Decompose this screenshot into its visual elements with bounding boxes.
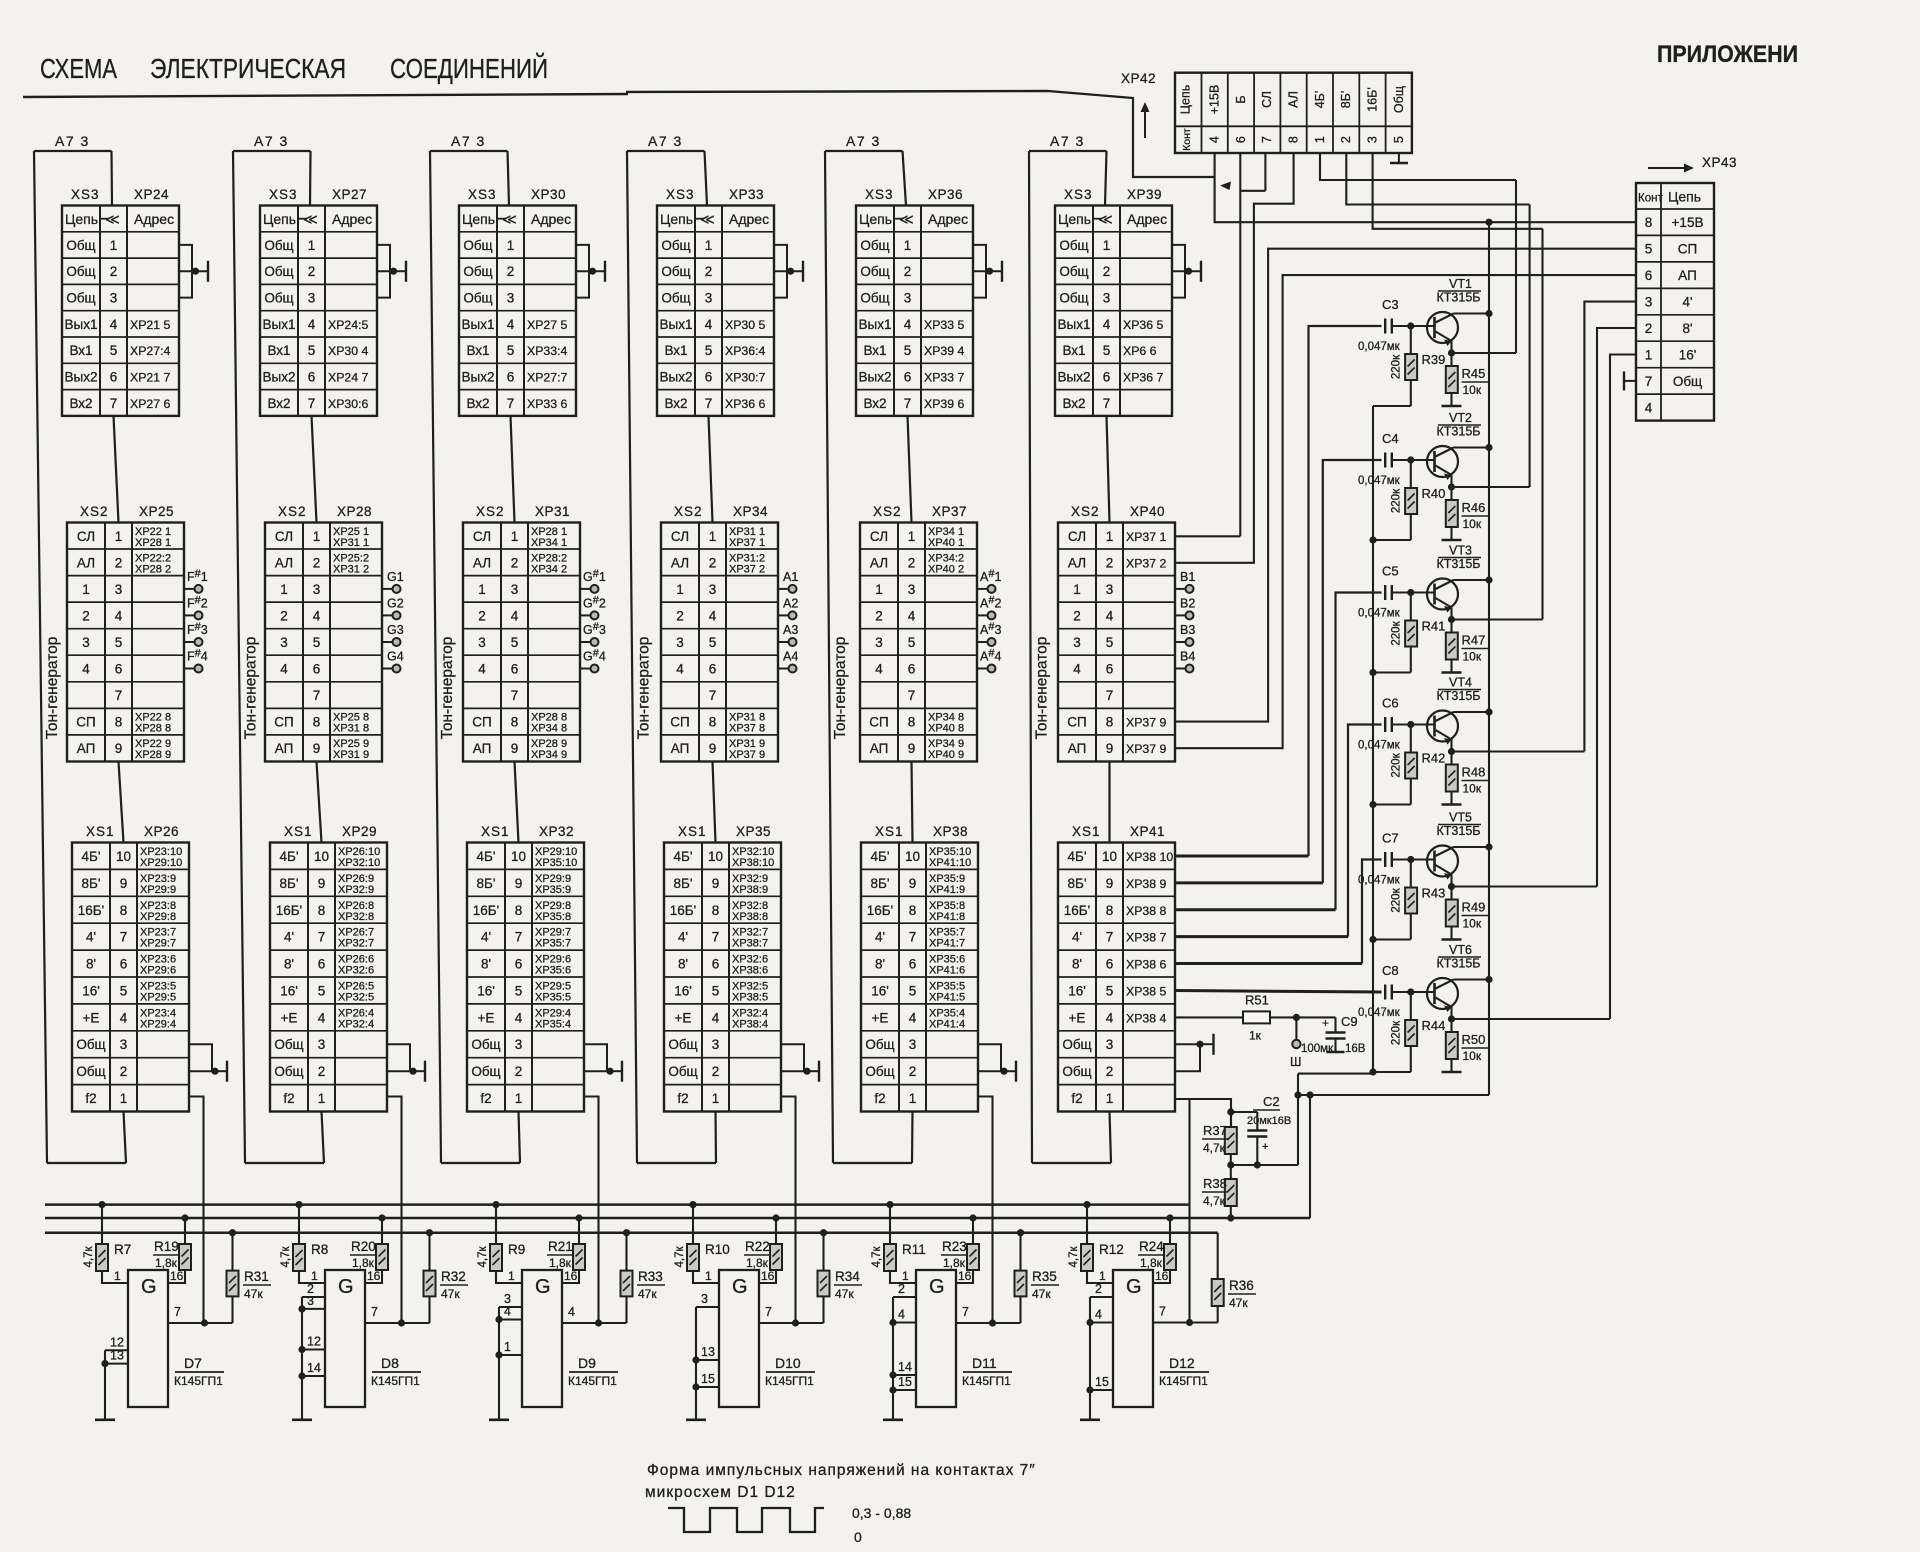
node G4 output circle column 2: [382, 650, 404, 673]
svg-text:2: 2: [478, 608, 486, 623]
svg-text:9: 9: [120, 876, 128, 891]
IC D8 К145ГП1 box: [325, 1270, 365, 1407]
svg-text:ХР31 8: ХР31 8: [333, 723, 369, 735]
wire XS3-XS2 link column 4: [709, 416, 713, 523]
svg-text:G1: G1: [387, 570, 404, 584]
svg-text:R20: R20: [351, 1239, 376, 1254]
svg-text:Общ: Общ: [76, 1064, 105, 1079]
svg-text:6: 6: [1106, 662, 1114, 677]
label Тон-генератор column 6: [1034, 637, 1051, 740]
svg-text:4: 4: [1106, 608, 1114, 623]
wire +15V collector bus: [1297, 222, 1490, 1095]
svg-text:Общ: Общ: [860, 264, 889, 279]
ground terminal at XP43 pin 7: [1624, 371, 1636, 390]
svg-text:VT4: VT4: [1449, 676, 1472, 690]
svg-text:4: 4: [705, 317, 713, 332]
svg-text:АЛ: АЛ: [1068, 555, 1086, 570]
svg-text:2: 2: [511, 555, 519, 570]
svg-text:7: 7: [709, 688, 717, 703]
IC D11 К145ГП1 box: [916, 1270, 956, 1407]
svg-text:АЛ: АЛ: [473, 555, 491, 570]
svg-text:Вых1: Вых1: [462, 317, 495, 332]
ground terminal at XP42 pin 5: [1390, 153, 1408, 163]
svg-text:А7 3: А7 3: [451, 133, 486, 149]
svg-text:Вх2: Вх2: [69, 396, 92, 411]
connector table XS1/ХР26 column 1: [72, 824, 189, 1112]
wire D11 grounded pins: [889, 1282, 916, 1420]
wire XS3-XS2 link column 2: [312, 416, 317, 523]
svg-text:ХР37 9: ХР37 9: [1126, 716, 1166, 730]
node А#4 output circle column 5: [977, 648, 1001, 673]
node VT4 emitter junction: [1448, 740, 1585, 756]
svg-text:1: 1: [875, 582, 883, 597]
svg-text:+15В: +15В: [1208, 85, 1222, 115]
svg-text:ХР41:7: ХР41:7: [929, 938, 965, 950]
svg-text:Конт: Конт: [1181, 128, 1193, 151]
wire AP XS2 column6 pin9 to XP43 pin6: [1175, 275, 1636, 748]
svg-text:9: 9: [511, 741, 519, 756]
svg-text:Вых2: Вых2: [1058, 369, 1091, 384]
svg-text:10к: 10к: [1463, 782, 1482, 796]
IC D10 К145ГП1 box: [719, 1270, 759, 1407]
svg-text:1: 1: [115, 529, 123, 544]
resistor R45 10к: [1446, 353, 1488, 406]
svg-text:В3: В3: [1180, 623, 1195, 637]
svg-text:2: 2: [82, 608, 90, 623]
wire XP42 pin2 8B' to VT2 emitter: [1346, 153, 1529, 205]
svg-text:G: G: [1126, 1276, 1142, 1298]
svg-text:4Б': 4Б': [280, 849, 299, 864]
svg-text:Вх2: Вх2: [466, 396, 489, 411]
svg-text:В1: В1: [1180, 570, 1195, 584]
svg-text:ХР38:7: ХР38:7: [732, 938, 768, 950]
svg-text:ХР37: ХР37: [932, 504, 967, 519]
svg-text:16': 16': [477, 984, 495, 999]
svg-text:ХР36 6: ХР36 6: [725, 397, 765, 411]
capacitor C3 0,047мк: [1358, 297, 1411, 353]
connector table XS3/ХР30 column 3: [459, 187, 576, 416]
svg-text:ХР37 8: ХР37 8: [729, 723, 765, 735]
svg-text:7: 7: [511, 688, 519, 703]
svg-text:4: 4: [568, 1305, 575, 1319]
svg-text:R44: R44: [1422, 1018, 1446, 1033]
ground at VT1 emitter resistor: [1442, 405, 1462, 408]
label XP42 pin 3 net 16Б': [1366, 87, 1380, 143]
svg-text:≪: ≪: [502, 211, 517, 227]
svg-text:3: 3: [308, 291, 316, 306]
svg-text:ХР38:8: ХР38:8: [732, 911, 768, 923]
svg-text:ХР32:10: ХР32:10: [338, 857, 380, 869]
wire VT6 emitter to XP43 pin1: [1610, 355, 1636, 1020]
svg-text:XS2: XS2: [1071, 504, 1100, 519]
svg-text:8': 8': [875, 957, 885, 972]
node А#3 output circle column 5: [977, 621, 1001, 646]
svg-text:4: 4: [478, 662, 486, 677]
svg-text:Вых1: Вых1: [263, 317, 296, 332]
svg-text:1: 1: [1645, 348, 1653, 363]
module A7.3 column 5 outline: [825, 151, 912, 1163]
svg-text:4Б': 4Б': [871, 849, 890, 864]
wire D10 pin 7 net: [759, 1305, 824, 1327]
svg-text:СЛ: СЛ: [1260, 91, 1274, 108]
svg-text:6: 6: [1103, 369, 1111, 384]
svg-text:R51: R51: [1245, 992, 1269, 1007]
svg-text:16': 16': [1068, 984, 1086, 999]
ground at D12: [1080, 1419, 1100, 1422]
svg-text:Вых2: Вых2: [859, 369, 892, 384]
wire VT2 collector to +15V bus: [1454, 444, 1493, 451]
svg-text:Общ: Общ: [471, 1037, 500, 1052]
svg-text:4: 4: [110, 317, 118, 332]
svg-text:ХР37 2: ХР37 2: [1126, 556, 1166, 570]
svg-text:ХР33 7: ХР33 7: [924, 370, 964, 384]
svg-text:6: 6: [120, 957, 128, 972]
title text СХЕМА ЭЛЕКТРИЧЕСКАЯ СОЕДИНЕНИЙ: [40, 53, 548, 84]
svg-text:АП: АП: [77, 741, 96, 756]
svg-text:8Б': 8Б': [280, 876, 299, 891]
svg-text:Общ: Общ: [274, 1037, 303, 1052]
connector table XS1/ХР29 column 2: [270, 824, 387, 1112]
svg-text:Цепь: Цепь: [462, 211, 495, 227]
svg-text:ХР39 4: ХР39 4: [924, 344, 964, 358]
svg-text:ХР28 9: ХР28 9: [135, 749, 171, 761]
svg-text:ХР28: ХР28: [337, 504, 372, 519]
svg-text:ХР40: ХР40: [1130, 504, 1165, 519]
svg-text:G: G: [338, 1276, 354, 1298]
svg-text:Ш: Ш: [1290, 1055, 1301, 1069]
svg-text:1: 1: [1106, 1091, 1114, 1106]
svg-text:10: 10: [708, 849, 723, 864]
note text line 2: [645, 1484, 796, 1501]
svg-text:К145ГП1: К145ГП1: [371, 1374, 420, 1388]
svg-text:3: 3: [1645, 295, 1653, 310]
svg-text:XS3: XS3: [666, 187, 695, 202]
svg-text:1: 1: [904, 238, 912, 253]
title heading ПРИЛОЖЕНИ: [1657, 41, 1798, 68]
svg-text:1,8к: 1,8к: [1140, 1256, 1163, 1270]
svg-text:C8: C8: [1382, 963, 1399, 978]
resistor R10 4,7к: [674, 1201, 730, 1283]
svg-text:8Б': 8Б': [82, 876, 101, 891]
svg-text:1,8к: 1,8к: [549, 1256, 572, 1270]
svg-text:Вх1: Вх1: [466, 343, 489, 358]
transistor VT6 КТ315Б: [1411, 943, 1481, 1012]
svg-text:1,8к: 1,8к: [155, 1256, 178, 1270]
svg-text:47к: 47к: [1229, 1296, 1248, 1310]
svg-text:VT6: VT6: [1449, 943, 1472, 957]
svg-text:АЛ: АЛ: [77, 555, 95, 570]
svg-text:4Б': 4Б': [1068, 849, 1087, 864]
svg-text:12: 12: [307, 1335, 321, 1349]
svg-text:1: 1: [676, 582, 684, 597]
svg-text:КТ315Б: КТ315Б: [1437, 824, 1481, 838]
svg-text:Общ: Общ: [66, 291, 95, 306]
wire D11 pin 7 net: [956, 1305, 1021, 1327]
svg-text:4: 4: [1208, 136, 1222, 143]
resistor R50 10к: [1446, 1019, 1488, 1072]
svg-text:7: 7: [1106, 688, 1114, 703]
svg-text:VT1: VT1: [1449, 277, 1472, 291]
svg-text:4': 4': [284, 930, 294, 945]
label D12 К145ГП1: [1159, 1355, 1209, 1388]
wire 220k bias bus: [1294, 406, 1373, 1165]
svg-text:8Б': 8Б': [1068, 876, 1087, 891]
label A7 3 column 3: [451, 133, 486, 149]
node А2 output circle column 4: [778, 596, 798, 619]
svg-text:Общ: Общ: [66, 264, 95, 279]
svg-text:7: 7: [308, 396, 316, 411]
svg-text:0,047мк: 0,047мк: [1358, 341, 1401, 353]
svg-text:ХР37 1: ХР37 1: [1126, 530, 1166, 544]
wire XP42 pin1 4B' to VT1 emitter: [1320, 153, 1516, 180]
svg-text:4: 4: [898, 1308, 905, 1322]
svg-text:8: 8: [318, 903, 326, 918]
svg-text:СП: СП: [76, 715, 95, 730]
resistor R8 4,7к: [280, 1201, 328, 1283]
svg-text:7: 7: [507, 396, 515, 411]
svg-text:ХР29: ХР29: [342, 824, 377, 839]
svg-text:6: 6: [507, 369, 515, 384]
svg-text:VT3: VT3: [1449, 544, 1472, 558]
svg-text:АЛ: АЛ: [870, 555, 888, 570]
IC D7 К145ГП1 box: [128, 1270, 168, 1407]
svg-text:R31: R31: [244, 1269, 269, 1284]
wire +15V XP42 pin4 to XP43 pin8: [1215, 153, 1636, 226]
wire D7 pin 7 net: [168, 1305, 233, 1327]
svg-text:Общ: Общ: [76, 1037, 105, 1052]
svg-text:16: 16: [367, 1269, 381, 1283]
svg-text:2: 2: [909, 1064, 917, 1079]
label 0: [854, 1529, 862, 1545]
svg-text:В2: В2: [1180, 596, 1195, 610]
resistor R51 1к: [1243, 992, 1270, 1042]
svg-text:ХР30 4: ХР30 4: [328, 344, 368, 358]
svg-text:XS2: XS2: [674, 504, 703, 519]
ground chassis symbol at XS1 column 5: [978, 1044, 1016, 1082]
resistor R42 220к: [1369, 725, 1445, 809]
svg-text:8': 8': [481, 957, 491, 972]
svg-text:Общ: Общ: [865, 1064, 894, 1079]
svg-text:СЛ: СЛ: [77, 529, 95, 544]
svg-text:2: 2: [115, 555, 123, 570]
label D7 К145ГП1: [174, 1355, 224, 1388]
svg-text:Общ: Общ: [661, 264, 690, 279]
svg-text:4': 4': [86, 930, 96, 945]
svg-text:4,7к: 4,7к: [280, 1246, 292, 1268]
svg-text:5: 5: [909, 984, 917, 999]
svg-text:4Б': 4Б': [82, 849, 101, 864]
wire +E XS1 column6 pin4 to R51: [1175, 1016, 1243, 1018]
svg-text:R37: R37: [1203, 1123, 1227, 1138]
svg-text:7: 7: [1159, 1305, 1166, 1319]
ground chassis symbol at XS1 column 2: [387, 1044, 425, 1082]
svg-text:Вых1: Вых1: [859, 317, 892, 332]
svg-text:≪: ≪: [105, 211, 120, 227]
svg-text:ХР25: ХР25: [139, 504, 174, 519]
resistor R46 10к: [1446, 487, 1488, 540]
svg-text:10к: 10к: [1463, 1049, 1482, 1063]
svg-text:1: 1: [114, 1269, 121, 1283]
connector table XS1/ХР38 column 5: [861, 824, 978, 1112]
svg-text:4: 4: [280, 662, 288, 677]
svg-text:R50: R50: [1462, 1032, 1486, 1047]
svg-text:10: 10: [1102, 849, 1117, 864]
svg-text:АП: АП: [275, 741, 294, 756]
svg-text:ХР37 9: ХР37 9: [1126, 742, 1166, 756]
label XP42 pin 5 net Общ: [1392, 86, 1406, 143]
svg-text:7: 7: [1106, 930, 1114, 945]
node VT6 base junction: [1407, 988, 1414, 995]
resistor R19 1,8к: [153, 1214, 191, 1283]
ground at D11: [883, 1419, 903, 1422]
svg-text:G: G: [929, 1276, 945, 1298]
capacitor C4 0,047мк: [1358, 431, 1411, 487]
svg-text:10к: 10к: [1463, 917, 1482, 931]
svg-text:7: 7: [962, 1305, 969, 1319]
svg-text:ХР21 7: ХР21 7: [130, 370, 170, 384]
svg-text:2: 2: [1106, 555, 1114, 570]
svg-text:100мк: 100мк: [1301, 1043, 1334, 1055]
label Тон-генератор column 4: [635, 637, 652, 740]
wire VT4 collector to +15V bus: [1454, 708, 1493, 715]
svg-text:2: 2: [712, 1064, 720, 1079]
wire XS2-XS1 link column 5: [912, 762, 913, 843]
svg-text:ХР35:9: ХР35:9: [535, 884, 571, 896]
svg-text:1,8к: 1,8к: [746, 1256, 769, 1270]
svg-text:Тон-генератор: Тон-генератор: [635, 637, 652, 740]
ground chassis symbol at XS3 column 5: [973, 245, 1002, 298]
svg-text:К145ГП1: К145ГП1: [1159, 1374, 1208, 1388]
node А1 output circle column 4: [778, 570, 798, 593]
svg-text:Адрес: Адрес: [332, 211, 372, 227]
wire VT1 emitter riser: [1515, 180, 1517, 353]
svg-text:микросхем D1 D12: микросхем D1 D12: [645, 1484, 796, 1501]
svg-text:Общ: Общ: [463, 264, 492, 279]
svg-text:1: 1: [311, 1269, 318, 1283]
svg-text:Тон-генератор: Тон-генератор: [1034, 637, 1051, 740]
wire 4' XS1 column6 pin7 riser to C6: [1175, 725, 1382, 937]
svg-text:1,8к: 1,8к: [352, 1256, 375, 1270]
node VT1 base junction: [1407, 322, 1414, 329]
svg-text:7: 7: [712, 930, 720, 945]
svg-text:3: 3: [709, 582, 717, 597]
svg-text:13: 13: [110, 1349, 124, 1363]
svg-text:6: 6: [1645, 268, 1653, 283]
resistor R36 47к: [1212, 1233, 1256, 1323]
svg-text:4Б': 4Б': [477, 849, 496, 864]
svg-text:7: 7: [909, 930, 917, 945]
svg-text:ХР29:6: ХР29:6: [140, 965, 176, 977]
svg-text:C6: C6: [1382, 696, 1399, 711]
svg-text:4: 4: [511, 608, 519, 623]
svg-text:ХР32:9: ХР32:9: [338, 884, 374, 896]
wire D8 grounded pins: [298, 1282, 325, 1420]
ground at VT2 emitter resistor: [1442, 539, 1462, 542]
svg-text:D8: D8: [381, 1355, 399, 1371]
svg-text:+Е: +Е: [478, 1010, 495, 1025]
svg-text:Общ: Общ: [865, 1037, 894, 1052]
svg-text:К145ГП1: К145ГП1: [765, 1374, 814, 1388]
svg-text:8: 8: [515, 903, 523, 918]
node G#4 output circle column 3: [580, 648, 606, 673]
module A7.3 column 4 outline: [627, 151, 716, 1163]
svg-text:G4: G4: [387, 650, 404, 664]
svg-text:8: 8: [1106, 715, 1114, 730]
svg-text:2: 2: [507, 264, 515, 279]
svg-text:6: 6: [318, 957, 326, 972]
svg-text:+Е: +Е: [675, 1010, 692, 1025]
capacitor C6 0,047мк: [1358, 696, 1411, 752]
svg-text:ХР35:5: ХР35:5: [535, 992, 571, 1004]
svg-text:А7 3: А7 3: [1050, 133, 1085, 149]
ground chassis symbol at XS1 column 4: [781, 1044, 819, 1082]
svg-text:1: 1: [308, 238, 316, 253]
svg-text:Вых2: Вых2: [65, 369, 98, 384]
label Тон-генератор column 2: [242, 637, 259, 740]
svg-text:ХР34: ХР34: [733, 504, 768, 519]
svg-text:Адрес: Адрес: [729, 211, 769, 227]
resistor R38 4,7к: [1202, 1165, 1237, 1222]
svg-text:Адрес: Адрес: [531, 211, 571, 227]
svg-text:4,7к: 4,7к: [1203, 1194, 1226, 1208]
wire f2 column 3 to D9: [584, 1097, 599, 1324]
svg-text:ХР21 5: ХР21 5: [130, 318, 170, 332]
svg-text:ХР40 2: ХР40 2: [928, 563, 964, 575]
svg-text:Общ: Общ: [668, 1064, 697, 1079]
svg-text:9: 9: [909, 876, 917, 891]
svg-text:3: 3: [1103, 291, 1111, 306]
svg-text:5: 5: [120, 984, 128, 999]
svg-text:ХР33 6: ХР33 6: [527, 397, 567, 411]
svg-text:ЭЛЕКТРИЧЕСКАЯ: ЭЛЕКТРИЧЕСКАЯ: [150, 53, 346, 84]
resistor R22 1,8к: [744, 1214, 782, 1283]
svg-text:4: 4: [1645, 400, 1653, 415]
svg-text:СП: СП: [1678, 242, 1697, 257]
wire XS1-bottom link column 2: [322, 1112, 325, 1164]
svg-text:3: 3: [478, 635, 486, 650]
module A7.3 column 3 outline: [430, 151, 520, 1163]
svg-text:8: 8: [313, 715, 321, 730]
svg-text:4,7к: 4,7к: [1203, 1141, 1226, 1155]
svg-text:ХР38 7: ХР38 7: [1126, 931, 1166, 945]
svg-text:16Б': 16Б': [78, 903, 104, 918]
svg-text:Цепь: Цепь: [1179, 85, 1193, 114]
svg-text:ХР28 2: ХР28 2: [135, 563, 171, 575]
node А3 output circle column 4: [778, 623, 798, 646]
svg-text:5: 5: [110, 343, 118, 358]
node VT3 emitter junction: [1448, 608, 1543, 624]
svg-text:АЛ: АЛ: [275, 555, 293, 570]
svg-text:ХР29:8: ХР29:8: [140, 911, 176, 923]
wire XS1-bottom link column 4: [714, 1112, 717, 1164]
module A7.3 column 1 outline: [34, 151, 126, 1163]
svg-text:47к: 47к: [244, 1287, 263, 1301]
label D8 К145ГП1: [371, 1355, 421, 1388]
svg-text:Общ: Общ: [463, 238, 492, 253]
svg-text:4: 4: [1095, 1308, 1102, 1322]
svg-text:2: 2: [705, 264, 713, 279]
ground chassis symbol at XS3 column 1: [179, 245, 208, 298]
wire 4B' XS1 column6 pin10 riser to C3: [1175, 326, 1382, 856]
connector table XS2/ХР34 column 4: [661, 504, 778, 762]
svg-text:4,7к: 4,7к: [83, 1246, 95, 1268]
svg-text:ХР34 1: ХР34 1: [531, 537, 567, 549]
svg-text:ХР36: ХР36: [928, 187, 963, 202]
svg-text:4,7к: 4,7к: [674, 1246, 686, 1268]
node F#2 output circle column 1: [184, 594, 208, 619]
svg-text:XS3: XS3: [865, 187, 894, 202]
svg-text:3: 3: [280, 635, 288, 650]
